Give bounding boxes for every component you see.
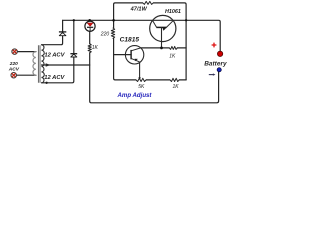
svg-text:220: 220 — [9, 61, 18, 67]
svg-text:12 ACV: 12 ACV — [44, 75, 65, 81]
svg-text:ACV: ACV — [8, 66, 20, 72]
svg-text:1K: 1K — [173, 84, 180, 90]
svg-text:5K: 5K — [138, 84, 145, 90]
svg-text:220: 220 — [100, 32, 110, 38]
svg-text:H1061: H1061 — [165, 9, 181, 15]
svg-text:12 ACV: 12 ACV — [44, 53, 65, 59]
svg-text:C1815: C1815 — [120, 36, 140, 43]
svg-text:Battery: Battery — [204, 61, 227, 68]
svg-text:47/1W: 47/1W — [130, 7, 148, 13]
svg-text:Amp Adjust: Amp Adjust — [117, 92, 153, 99]
svg-text:1K: 1K — [169, 54, 176, 60]
svg-text:1K: 1K — [92, 45, 99, 51]
